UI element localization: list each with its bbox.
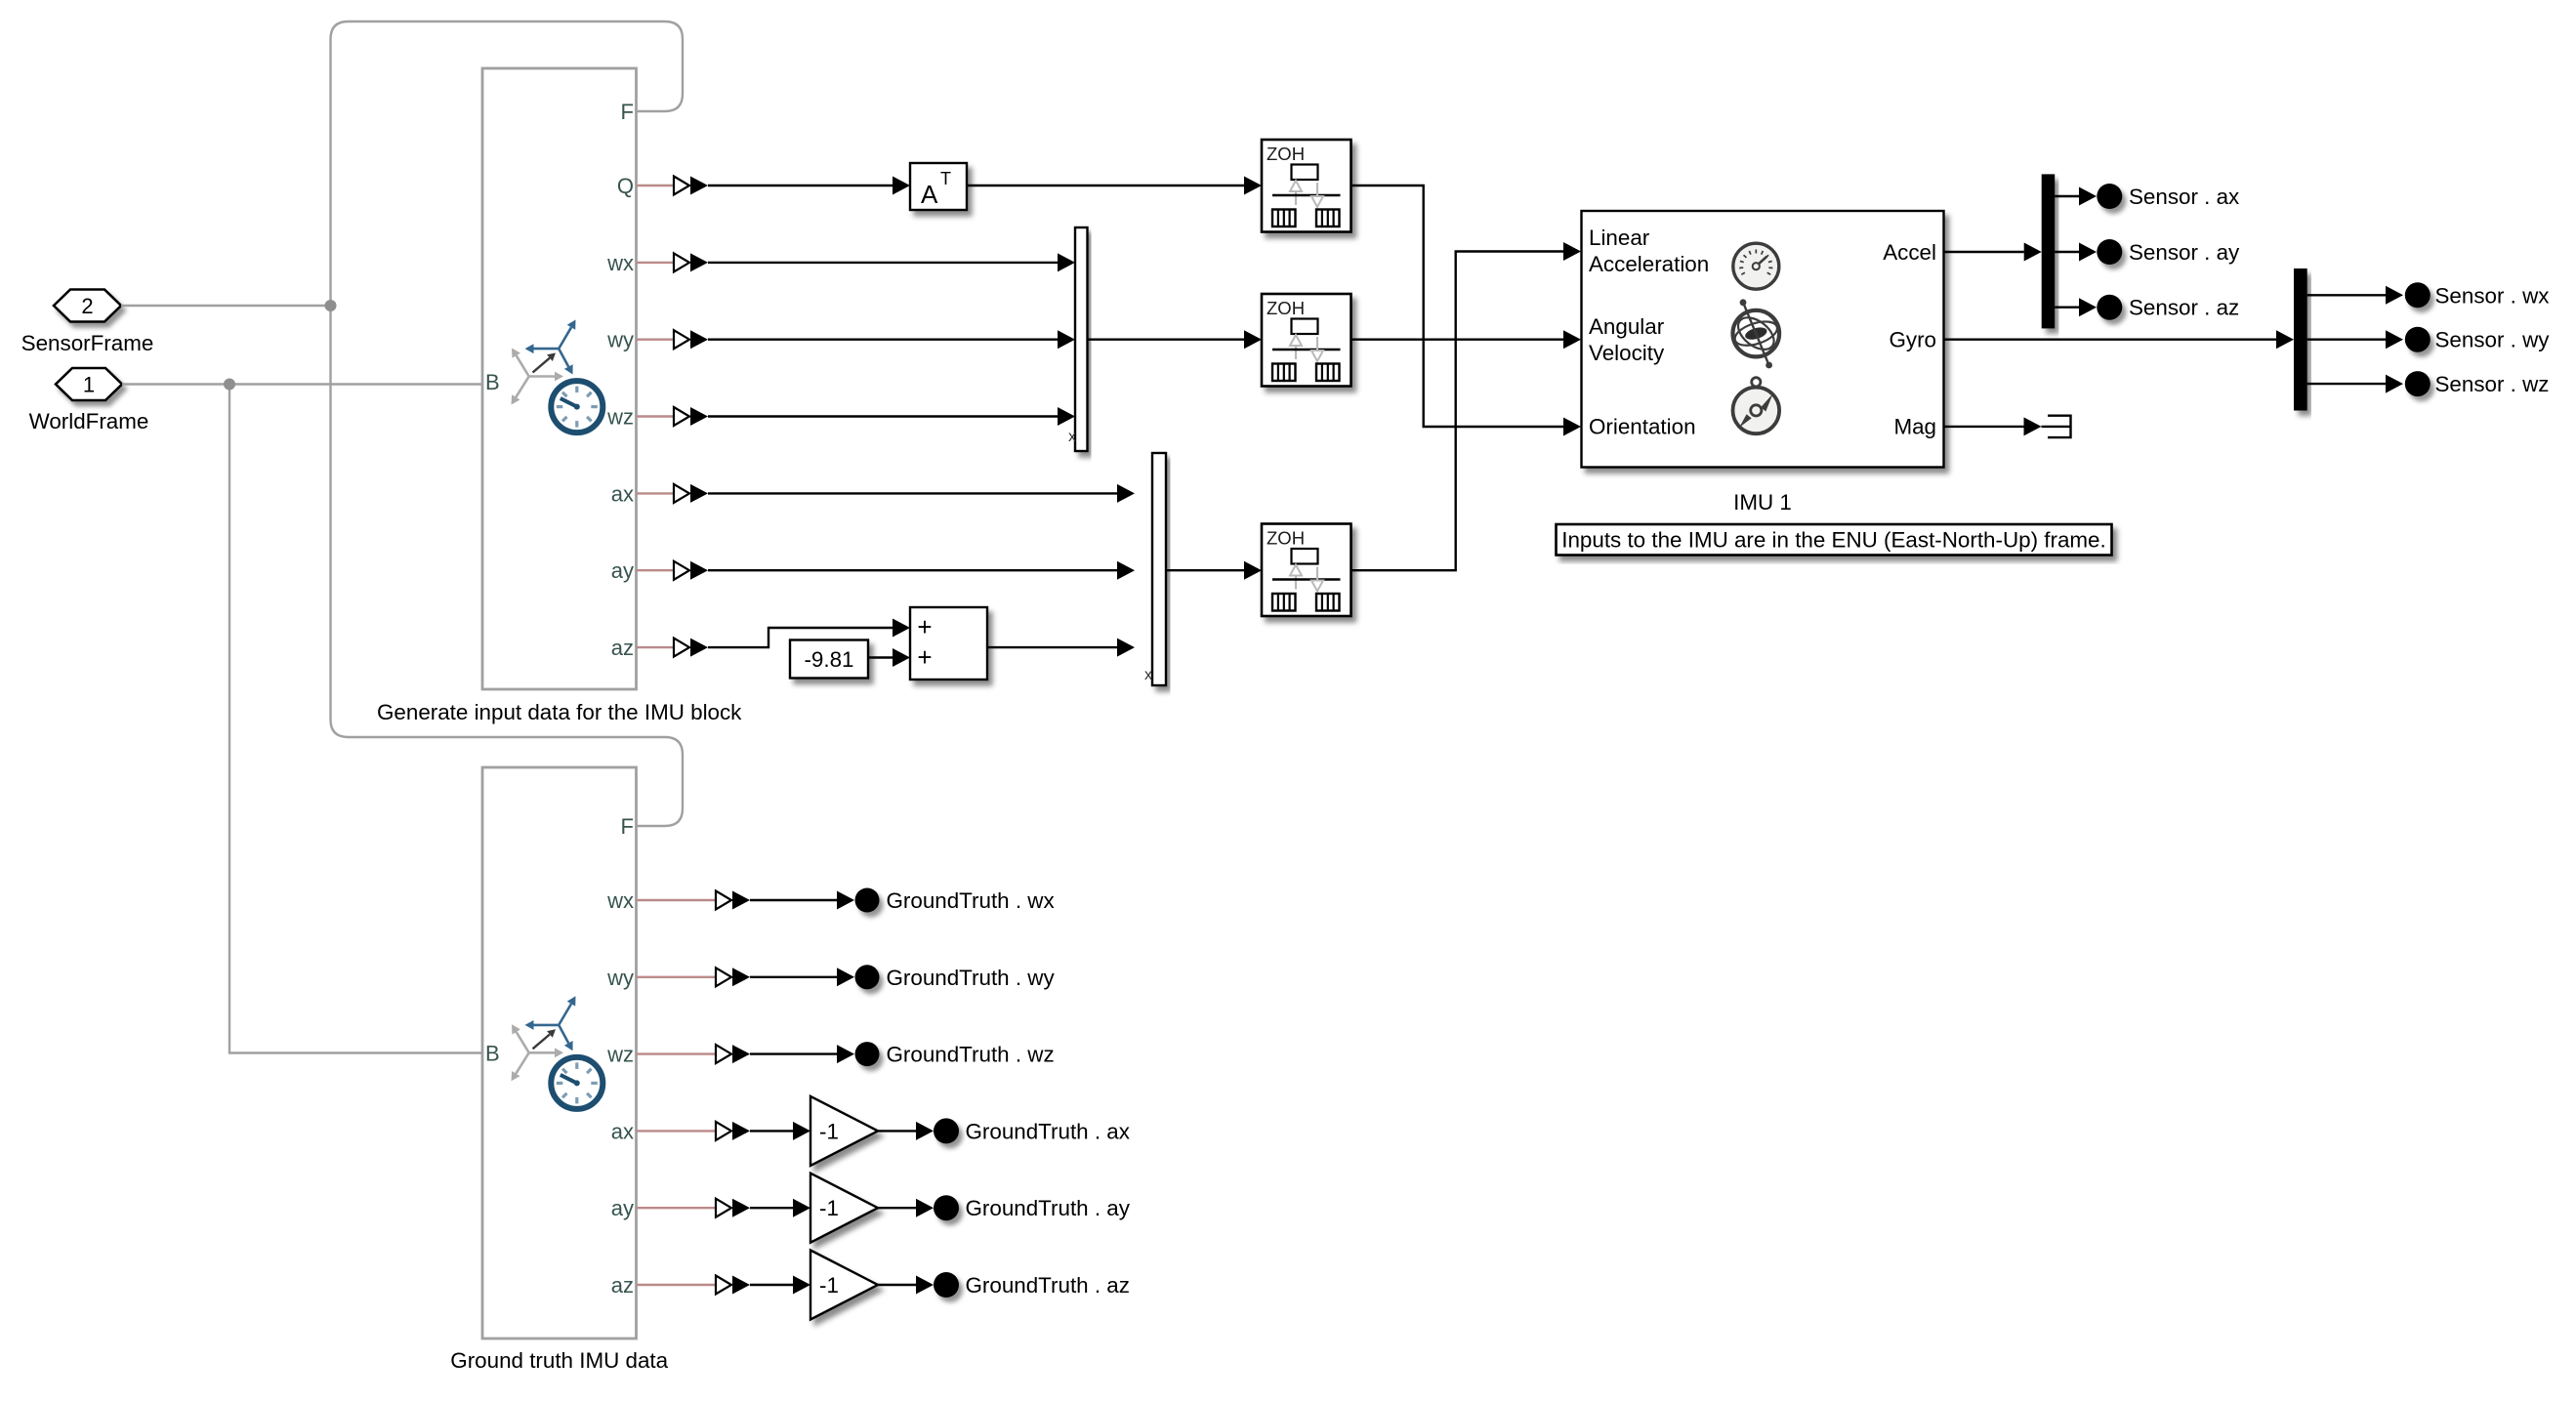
wire Accel to demux1: [1944, 243, 2042, 262]
wire loop to F of bottom subsystem: [331, 306, 684, 826]
svg-text:wy: wy: [606, 328, 634, 352]
svg-text:1: 1: [83, 373, 95, 397]
signal GroundTruth . ay: [878, 1195, 1131, 1220]
port az of subsystem 2: [611, 1273, 750, 1298]
sum block: [910, 607, 987, 680]
svg-text:wy: wy: [606, 966, 634, 990]
svg-text:Gyro: Gyro: [1889, 327, 1936, 351]
svg-text:wx: wx: [606, 251, 634, 275]
svg-text:Sensor . ay: Sensor . ay: [2129, 240, 2240, 265]
svg-text:T: T: [940, 169, 951, 188]
svg-text:F: F: [621, 814, 634, 839]
svg-text:Accel: Accel: [1883, 240, 1936, 265]
svg-text:SensorFrame: SensorFrame: [21, 331, 154, 355]
signal Sensor . wy: [2307, 327, 2551, 352]
wire -9.81 to sum: [868, 648, 910, 667]
port wx of subsystem 1: [606, 251, 708, 275]
svg-text:wx: wx: [606, 888, 634, 913]
IMU gauge icon: [1733, 243, 1779, 289]
wire SensorFrame to junction: [121, 305, 331, 307]
svg-text:Sensor . wz: Sensor . wz: [2435, 372, 2550, 396]
svg-text:Velocity: Velocity: [1589, 341, 1665, 365]
svg-text:-1: -1: [819, 1196, 839, 1220]
wire ax to mux2: [708, 484, 1135, 503]
subsystem Ground truth IMU data: [482, 767, 637, 1339]
svg-text:ax: ax: [611, 481, 634, 506]
gain -1 for az: [810, 1251, 878, 1320]
mux2: [1152, 453, 1166, 685]
wire ZOH2 to Angular Velocity: [1351, 330, 1582, 349]
wire ZOH3 to Linear Acceleration: [1351, 242, 1582, 570]
svg-text:wz: wz: [606, 1043, 634, 1067]
inport 1 WorldFrame: [56, 368, 122, 400]
rate transition ZOH 2: [1262, 294, 1351, 387]
port B of subsystem 2: [485, 1042, 500, 1066]
wire mux1 to ZOH2: [1088, 330, 1263, 349]
wire az to gain: [750, 1276, 810, 1295]
gain -1 for ax: [810, 1096, 878, 1166]
signal Sensor . ax: [2055, 184, 2239, 209]
svg-text:Inputs to the IMU are in the E: Inputs to the IMU are in the ENU (East-N…: [1561, 528, 2105, 553]
wire WorldFrame down to B of bottom subsystem: [229, 385, 482, 1053]
wire ZOH1 to Orientation: [1351, 185, 1582, 436]
svg-text:-9.81: -9.81: [804, 647, 853, 672]
port Q of subsystem 1: [617, 174, 708, 198]
svg-text:B: B: [485, 1042, 500, 1066]
signal GroundTruth . az: [878, 1272, 1130, 1298]
frame-transform clock icon of subsystem 1: [512, 320, 603, 433]
label IMU 1: [1733, 490, 1792, 515]
svg-text:GroundTruth . az: GroundTruth . az: [966, 1273, 1130, 1298]
svg-text:ZOH: ZOH: [1267, 528, 1305, 549]
svg-text:-1: -1: [819, 1119, 839, 1143]
label Ground truth IMU data: [450, 1348, 668, 1373]
port F of subsystem 1: [621, 100, 634, 124]
IMU block U1: [1582, 211, 1944, 468]
subsystem Generate input data for the IMU block: [482, 68, 637, 689]
constant -9.81: [790, 640, 868, 679]
svg-text:Sensor . az: Sensor . az: [2129, 296, 2239, 320]
wire az to sum: [708, 619, 910, 648]
signal GroundTruth . ax: [878, 1118, 1130, 1143]
frame-transform clock icon of subsystem 2: [512, 996, 603, 1109]
svg-text:+: +: [917, 642, 932, 672]
svg-text:Mag: Mag: [1893, 415, 1936, 439]
label SensorFrame: [21, 331, 154, 355]
port ax of subsystem 2: [611, 1119, 750, 1143]
wire Gyro to demux2: [1944, 330, 2295, 349]
inport 2 SensorFrame: [54, 290, 121, 322]
port wy of subsystem 1: [606, 328, 708, 352]
IMU gyroscope icon: [1732, 299, 1780, 368]
wire loop to F of top subsystem: [331, 21, 684, 306]
svg-text:Q: Q: [617, 174, 634, 198]
port ay of subsystem 1: [611, 558, 708, 583]
port wz of subsystem 1: [606, 405, 708, 430]
IMU compass icon: [1733, 378, 1780, 434]
svg-text:ay: ay: [611, 558, 634, 583]
label WorldFrame: [29, 409, 149, 433]
terminator for Mag: [2042, 416, 2071, 437]
rate transition ZOH 1: [1262, 140, 1351, 232]
rate transition ZOH 3: [1262, 524, 1351, 617]
svg-text:ZOH: ZOH: [1267, 144, 1305, 164]
svg-text:x: x: [1068, 429, 1076, 445]
svg-text:Acceleration: Acceleration: [1589, 252, 1709, 276]
wire wz to mux1: [708, 407, 1075, 426]
wire mux2 to ZOH3: [1166, 561, 1262, 580]
svg-text:-1: -1: [819, 1273, 839, 1298]
svg-text:GroundTruth . wx: GroundTruth . wx: [887, 888, 1055, 913]
junction WorldFrame: [224, 379, 235, 391]
svg-text:Ground truth IMU data: Ground truth IMU data: [450, 1348, 668, 1373]
svg-text:GroundTruth . ax: GroundTruth . ax: [966, 1119, 1130, 1143]
svg-text:x: x: [1144, 667, 1152, 683]
svg-text:Sensor . ax: Sensor . ax: [2129, 185, 2239, 209]
svg-text:Sensor . wx: Sensor . wx: [2435, 283, 2550, 308]
svg-text:ZOH: ZOH: [1267, 298, 1305, 318]
svg-text:B: B: [485, 370, 500, 394]
svg-text:A: A: [921, 180, 938, 209]
svg-text:ax: ax: [611, 1119, 634, 1143]
port ax of subsystem 1: [611, 481, 708, 506]
svg-text:Sensor . wy: Sensor . wy: [2435, 328, 2551, 352]
port wz of subsystem 2: [606, 1043, 750, 1067]
port az of subsystem 1: [611, 636, 708, 660]
signal Sensor . wx: [2307, 282, 2550, 308]
port F of subsystem 2: [621, 814, 634, 839]
wire Q to transpose: [708, 177, 910, 195]
port ay of subsystem 2: [611, 1196, 750, 1220]
wire ay to gain: [750, 1199, 810, 1217]
svg-text:WorldFrame: WorldFrame: [29, 409, 149, 433]
svg-text:GroundTruth . wy: GroundTruth . wy: [887, 966, 1056, 990]
signal GroundTruth . wz: [750, 1042, 1055, 1067]
port wy of subsystem 2: [606, 966, 750, 990]
svg-text:wz: wz: [606, 405, 634, 430]
wire ay to mux2: [708, 561, 1135, 580]
svg-text:GroundTruth . ay: GroundTruth . ay: [966, 1196, 1131, 1220]
svg-text:2: 2: [81, 294, 93, 318]
svg-text:IMU 1: IMU 1: [1733, 490, 1792, 515]
svg-text:Angular: Angular: [1589, 314, 1665, 339]
mux1: [1075, 227, 1088, 451]
wire sum to mux2: [987, 639, 1135, 657]
wire wx to mux1: [708, 253, 1075, 271]
signal GroundTruth . wy: [750, 965, 1055, 990]
svg-text:F: F: [621, 100, 634, 124]
port wx of subsystem 2: [606, 888, 750, 913]
wire Mag to terminator: [1944, 417, 2042, 435]
signal GroundTruth . wx: [750, 888, 1055, 914]
signal Sensor . az: [2055, 295, 2239, 320]
svg-text:az: az: [611, 636, 634, 660]
demux2: [2294, 268, 2307, 411]
svg-text:+: +: [917, 612, 932, 641]
annotation Inputs to the IMU are in the ENU frame: [1557, 524, 2112, 556]
svg-text:Generate input data for the IM: Generate input data for the IMU block: [377, 700, 742, 724]
svg-text:Orientation: Orientation: [1589, 415, 1696, 439]
label Generate input data for the IMU block: [377, 700, 742, 724]
junction SensorFrame: [325, 300, 337, 311]
math function block A^T: [910, 163, 967, 210]
wire transpose to ZOH1: [967, 177, 1262, 195]
svg-text:GroundTruth . wz: GroundTruth . wz: [887, 1043, 1055, 1067]
wire ax to gain: [750, 1122, 810, 1140]
signal Sensor . wz: [2307, 371, 2550, 396]
svg-text:az: az: [611, 1273, 634, 1298]
gain -1 for ay: [810, 1174, 878, 1243]
signal Sensor . ay: [2055, 239, 2240, 265]
svg-text:Linear: Linear: [1589, 226, 1650, 250]
port B of subsystem 1: [485, 370, 500, 394]
wire wy to mux1: [708, 330, 1075, 349]
svg-text:ay: ay: [611, 1196, 634, 1220]
demux1: [2042, 174, 2056, 328]
wire WorldFrame to B of top subsystem: [122, 383, 482, 385]
